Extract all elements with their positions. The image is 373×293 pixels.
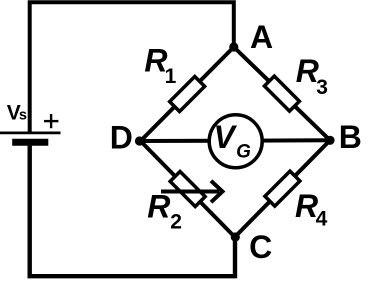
plus sign of battery xyxy=(44,120,58,122)
resistor R3 body xyxy=(264,76,299,111)
resistor R2 body (variable) xyxy=(170,171,205,206)
svg-text:1: 1 xyxy=(165,65,177,88)
arrow through R2 xyxy=(161,190,219,194)
wire: arm D-C xyxy=(141,141,235,237)
wire: left rail top + top rail + drop to node A xyxy=(30,2,234,134)
svg-text:B: B xyxy=(339,119,362,155)
svg-text:A: A xyxy=(250,19,273,55)
resistor R4 body xyxy=(265,171,300,206)
wire: arm A-B xyxy=(234,47,330,140)
node C xyxy=(231,232,240,241)
node B xyxy=(325,136,334,145)
svg-text:D: D xyxy=(110,119,133,155)
battery Vs: thick negative plate xyxy=(12,139,48,146)
node A xyxy=(229,42,238,51)
svg-text:V: V xyxy=(214,119,238,155)
galvanometer VG circle xyxy=(209,115,262,168)
svg-text:G: G xyxy=(236,142,251,163)
battery Vs: thin positive plate xyxy=(0,131,61,134)
wire: left rail bottom + bottom rail + rise to node C xyxy=(30,142,235,276)
svg-text:3: 3 xyxy=(316,76,328,99)
wire: galvanometer bridge D-B xyxy=(141,138,331,143)
svg-text:2: 2 xyxy=(170,211,182,234)
svg-text:C: C xyxy=(249,229,272,265)
wire: arm D-A xyxy=(141,47,234,141)
resistor R1 body xyxy=(170,76,205,111)
node D xyxy=(135,136,144,145)
svg-text:s: s xyxy=(19,108,27,124)
svg-text:R: R xyxy=(147,189,170,225)
wire: arm C-B xyxy=(235,140,330,237)
svg-text:4: 4 xyxy=(316,208,328,231)
